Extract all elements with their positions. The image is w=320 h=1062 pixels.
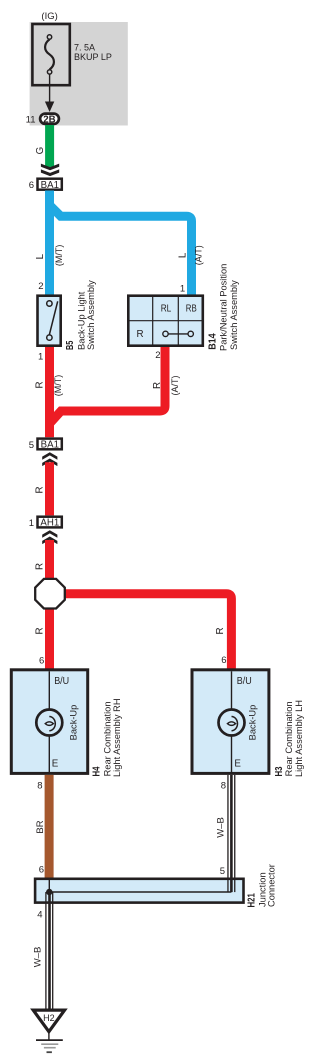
shield chevrons into BA1 pin 6 <box>41 164 59 177</box>
svg-text:L: L <box>35 253 46 259</box>
svg-text:6: 6 <box>39 865 44 876</box>
svg-text:AH1: AH1 <box>40 518 59 529</box>
svg-text:BA1: BA1 <box>41 180 59 191</box>
svg-text:7. 5A: 7. 5A <box>74 42 95 52</box>
switch B14 body <box>128 296 203 346</box>
svg-text:5: 5 <box>29 440 34 451</box>
wire W-B right H3 to H21 <box>227 775 235 892</box>
connector 2B <box>40 114 59 124</box>
svg-text:W–B: W–B <box>215 817 226 838</box>
svg-text:1: 1 <box>29 518 34 529</box>
wire R red AH1 to splice <box>45 540 54 580</box>
svg-text:Rear Combination: Rear Combination <box>102 701 112 776</box>
svg-text:11: 11 <box>26 115 36 126</box>
wire R red splice branch to H3 <box>63 594 231 670</box>
svg-text:R: R <box>35 381 46 388</box>
svg-text:4: 4 <box>37 910 42 921</box>
svg-text:Park/Neutral Position: Park/Neutral Position <box>219 264 229 351</box>
svg-text:2: 2 <box>155 350 160 361</box>
connector BA1 pin 5 <box>38 439 62 450</box>
svg-text:E: E <box>234 759 241 770</box>
svg-text:BR: BR <box>35 820 46 833</box>
svg-text:(A/T): (A/T) <box>170 376 180 396</box>
svg-text:R: R <box>215 627 226 634</box>
fuse F 7.5A BKUP LP body <box>32 24 69 85</box>
svg-text:8: 8 <box>221 781 226 792</box>
svg-text:Connector: Connector <box>266 864 276 907</box>
svg-text:(M/T): (M/T) <box>54 245 64 267</box>
svg-text:H2: H2 <box>43 1013 55 1023</box>
junction dot <box>46 889 52 895</box>
ground symbol <box>48 1033 50 1040</box>
shield chevrons below BA1 <box>42 452 57 466</box>
bulb H3 Back-Up <box>219 710 245 736</box>
svg-text:B14: B14 <box>208 333 219 350</box>
svg-text:E: E <box>52 759 59 770</box>
svg-text:1: 1 <box>180 284 185 295</box>
svg-text:B/U: B/U <box>237 676 252 687</box>
lamp H4 Rear Combination Light Assembly RH <box>11 670 87 774</box>
splice octagon <box>35 579 65 609</box>
svg-text:6: 6 <box>221 655 226 666</box>
svg-text:Light Assembly RH: Light Assembly RH <box>112 698 122 777</box>
svg-text:RL: RL <box>161 304 172 315</box>
wire R red BA1 to AH1 <box>45 462 54 515</box>
svg-text:8: 8 <box>37 781 42 792</box>
svg-text:5: 5 <box>220 866 225 877</box>
fuse block shaded area <box>30 22 128 126</box>
bulb H4 Back-Up <box>36 710 62 736</box>
svg-text:1: 1 <box>38 352 43 363</box>
svg-text:R: R <box>136 329 143 340</box>
svg-text:(A/T): (A/T) <box>194 245 204 265</box>
svg-text:B/U: B/U <box>54 676 69 687</box>
wire L (A/T) blue branch to B14 <box>50 206 192 295</box>
lamp H3 Rear Combination Light Assembly LH <box>192 670 269 774</box>
svg-text:R: R <box>35 486 46 493</box>
svg-text:G: G <box>35 147 46 155</box>
svg-text:Back-Up: Back-Up <box>248 705 258 741</box>
wire R red splice to H4 <box>45 608 54 670</box>
svg-text:(M/T): (M/T) <box>53 375 63 397</box>
svg-text:Switch Assembly: Switch Assembly <box>229 280 239 350</box>
connector AH1 pin 1 <box>38 517 62 528</box>
arrowhead into 2B <box>45 102 54 113</box>
svg-text:BKUP LP: BKUP LP <box>74 52 112 62</box>
wire W-B bottom H21 to ground H2 <box>45 892 53 1009</box>
svg-text:Back-Up: Back-Up <box>69 705 79 741</box>
shield chevrons below AH1 <box>42 530 57 544</box>
junction connector H21 <box>35 879 243 903</box>
wire G green from 2B to BA1 <box>45 125 54 168</box>
svg-text:Switch Assembly: Switch Assembly <box>86 280 96 350</box>
svg-text:(IG): (IG) <box>41 11 57 22</box>
svg-text:RB: RB <box>186 304 197 315</box>
svg-text:6: 6 <box>39 656 44 667</box>
svg-text:R: R <box>35 627 46 634</box>
B14 switch contacts <box>163 331 194 336</box>
svg-text:6: 6 <box>29 180 34 191</box>
switch B5 body <box>38 296 61 346</box>
ground point H2 triangle <box>33 1010 64 1032</box>
switch B5 contacts <box>47 301 58 341</box>
svg-text:Rear Combination: Rear Combination <box>284 701 294 776</box>
fuse element <box>45 35 54 74</box>
svg-text:2: 2 <box>38 281 43 292</box>
wire R (M/T) red from B5 to BA1 <box>45 347 54 437</box>
svg-text:H4: H4 <box>92 766 103 776</box>
wire R (A/T) red from B14 merging <box>50 347 165 423</box>
connector BA1 pin 6 <box>38 179 62 190</box>
wire from fuse to connector 2B <box>49 74 51 103</box>
svg-text:R: R <box>152 382 163 389</box>
svg-text:L: L <box>177 252 188 258</box>
B14 internal grid <box>128 296 203 346</box>
svg-text:W–B: W–B <box>33 947 44 968</box>
wire BR brown H4 to H21 <box>45 775 54 879</box>
svg-text:B5: B5 <box>65 340 76 350</box>
svg-text:Light Assembly LH: Light Assembly LH <box>294 700 304 777</box>
svg-text:R: R <box>35 563 46 570</box>
svg-text:2B: 2B <box>43 114 55 125</box>
wire L (M/T) blue vertical to B5 <box>45 191 54 295</box>
svg-text:Back-Up Light: Back-Up Light <box>76 291 86 350</box>
H21 internal bus <box>48 879 50 892</box>
svg-text:H21: H21 <box>246 893 257 908</box>
svg-text:BA1: BA1 <box>41 440 59 451</box>
